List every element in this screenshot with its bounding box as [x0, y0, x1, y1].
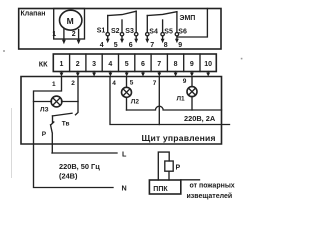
svg-text:9: 9 [178, 42, 182, 49]
svg-text:от пожарных: от пожарных [190, 183, 235, 190]
svg-text:2: 2 [76, 61, 80, 68]
wire from terminal 4 down and across 220V 2A [110, 77, 230, 125]
svg-text:8: 8 [164, 42, 168, 49]
svg-text:220В, 2А: 220В, 2А [184, 114, 216, 123]
wire S5 to terminal 8 [162, 36, 164, 40]
svg-text:2: 2 [72, 31, 76, 38]
lamp L3 wire [34, 101, 79, 103]
wire S4 to terminal 7 [146, 36, 148, 40]
wire L [52, 152, 117, 154]
terminal dividers [70, 54, 200, 72]
motor lead pin 1 [63, 29, 65, 41]
scan speck [3, 50, 5, 52]
relay coil P loop [158, 152, 169, 180]
scan speck right [241, 58, 243, 60]
svg-text:Щит управления: Щит управления [142, 133, 216, 143]
svg-text:S3: S3 [125, 28, 134, 35]
svg-text:7: 7 [153, 80, 157, 87]
lamp bus wire with crossover hump [127, 106, 222, 110]
switch Tv lever [53, 113, 73, 116]
svg-text:Клапан: Клапан [21, 11, 46, 18]
svg-text:S5: S5 [164, 29, 173, 36]
wire S1 to terminal 4 [107, 36, 109, 40]
wire from terminal 2 to switch Tv [76, 77, 79, 115]
svg-text:1: 1 [52, 81, 56, 88]
switch S6 [176, 12, 178, 33]
ganged lever bar S4-S6 [147, 12, 177, 16]
svg-text:N: N [122, 184, 127, 193]
relay contact P [51, 116, 54, 153]
svg-text:1: 1 [52, 31, 56, 38]
wire from terminal 5 to lamp L2 [126, 77, 128, 88]
wire S2 to terminal 5 [121, 36, 123, 40]
svg-text:S6: S6 [178, 29, 187, 36]
svg-text:3: 3 [92, 61, 96, 68]
switch S3 [135, 11, 137, 32]
svg-text:Л1: Л1 [177, 96, 186, 103]
svg-text:М: М [67, 16, 74, 26]
svg-text:2: 2 [71, 80, 75, 87]
svg-text:S4: S4 [149, 28, 158, 35]
lamp L2 bottom lead [126, 97, 128, 110]
wire from terminal 9 to lamp L1 [191, 77, 193, 87]
wire S3 to terminal 6 [135, 36, 137, 40]
svg-text:ЭМП: ЭМП [180, 15, 196, 22]
control panel box (Щит управления) [21, 77, 222, 145]
svg-text:4: 4 [100, 42, 104, 49]
svg-text:S1: S1 [97, 28, 106, 35]
svg-text:Р: Р [42, 131, 47, 138]
svg-text:5: 5 [125, 61, 129, 68]
switch S2 [121, 20, 123, 32]
lamp L3 [51, 96, 62, 107]
scan page-edge faint line [11, 108, 12, 178]
svg-text:ППК: ППК [153, 186, 168, 193]
switch S1 [107, 16, 109, 33]
wire from terminal 7 [158, 77, 160, 125]
svg-text:(24В): (24В) [59, 172, 78, 181]
svg-text:220В, 50 Гц: 220В, 50 Гц [59, 162, 100, 171]
wire S6 to terminal 9 [176, 36, 178, 40]
svg-text:4: 4 [112, 80, 116, 87]
svg-text:КК: КК [39, 59, 48, 68]
EMP drive partition lines [178, 9, 208, 38]
lamp L1 bottom lead [191, 97, 193, 110]
svg-text:8: 8 [174, 61, 178, 68]
svg-text:6: 6 [141, 61, 145, 68]
arrows from terminals into control panel [60, 72, 211, 77]
wire from fire detectors [181, 179, 200, 181]
svg-text:Л2: Л2 [131, 99, 140, 106]
svg-text:S2: S2 [111, 28, 120, 35]
motor lead pin 2 [78, 30, 80, 42]
motor sub-box [54, 9, 85, 40]
svg-text:9: 9 [190, 61, 194, 68]
lamp L2 [122, 87, 132, 97]
svg-text:6: 6 [129, 42, 133, 49]
svg-text:5: 5 [114, 42, 118, 49]
ganged lever bar S1-S3 [108, 11, 137, 15]
switch S5 [162, 20, 164, 32]
svg-text:Тв: Тв [62, 121, 70, 128]
wire from terminal 1 down to neutral N [34, 77, 114, 188]
motor M [59, 10, 81, 30]
valve enclosure box (Клапан) [19, 9, 221, 50]
svg-text:10: 10 [204, 61, 212, 68]
lamp L1 [187, 87, 197, 97]
svg-text:1: 1 [60, 61, 64, 68]
switch S4 [146, 16, 148, 33]
svg-text:9: 9 [183, 78, 187, 85]
svg-text:Р: Р [176, 165, 181, 172]
svg-text:5: 5 [130, 79, 134, 86]
svg-text:извещателей: извещателей [187, 192, 233, 200]
svg-text:7: 7 [157, 61, 161, 68]
relay coil P [165, 161, 173, 171]
svg-text:7: 7 [150, 42, 154, 49]
svg-text:ЛЗ: ЛЗ [40, 106, 49, 113]
svg-text:L: L [122, 149, 127, 158]
svg-text:4: 4 [108, 61, 112, 68]
terminal block KK outline [53, 54, 216, 72]
PPK box [149, 180, 180, 194]
